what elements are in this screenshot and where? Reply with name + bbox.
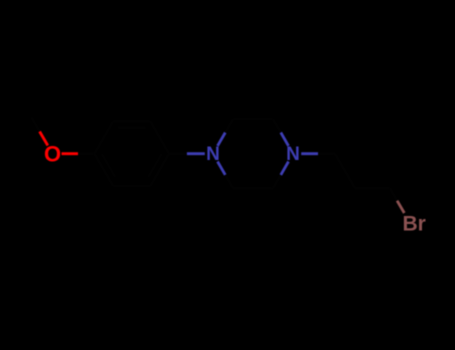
bond CH2c-Br (bromine half) (397, 201, 404, 213)
bond C4-N1 (nitrogen half) (187, 152, 205, 155)
bond CH2b-CH2c (355, 187, 390, 190)
benzene edge C1-C2 (95, 121, 114, 153)
bond CH2c-Br (carbon half) (390, 188, 397, 200)
svg-text:N: N (286, 144, 300, 165)
piperazine bond CbotL-CbotR (233, 187, 273, 190)
bond O-C1ring (carbon half) (78, 152, 95, 155)
piperazine bond CbotR-N2 (carbon half) (273, 175, 281, 188)
benzene edge C5-C6 (113, 185, 150, 188)
svg-text:O: O (44, 142, 61, 167)
benzene double bond inner C4-C5 (148, 154, 162, 178)
bond CH2a-CH2b (335, 154, 355, 189)
piperazine bond N1-CtopL (nitrogen half) (218, 133, 226, 146)
bond CH3-O (carbon half) (32, 117, 40, 131)
benzene double bond inner C2-C3 (118, 126, 146, 128)
benzene edge C3-C4 (150, 121, 169, 153)
piperazine bond CtopR-N2 (nitrogen half) (281, 133, 289, 146)
svg-text:N: N (206, 144, 220, 165)
bond N2-CH2a (carbon half) (318, 152, 335, 155)
benzene double bond inner C6-C1 (102, 154, 116, 178)
bond O-C1ring (oxygen half) (62, 152, 79, 155)
bond C4-N1 (carbon half) (169, 152, 187, 155)
piperazine bond N1-CtopL (carbon half) (225, 119, 233, 132)
bond CH3-O (oxygen half) (40, 132, 48, 146)
benzene edge C2-C3 (113, 120, 150, 123)
piperazine bond CtopR-N2 (carbon half) (273, 119, 281, 132)
benzene edge C6-C1 (95, 154, 114, 186)
benzene edge C4-C5 (150, 154, 169, 186)
bond N2-CH2a (nitrogen half) (301, 152, 318, 155)
svg-text:Br: Br (403, 213, 426, 236)
piperazine bond CbotR-N2 (nitrogen half) (281, 162, 289, 175)
piperazine bond N1-CbotL (carbon half) (225, 175, 233, 188)
piperazine bond N1-CbotL (nitrogen half) (218, 162, 226, 175)
piperazine bond CtopL-CtopR (233, 118, 273, 121)
